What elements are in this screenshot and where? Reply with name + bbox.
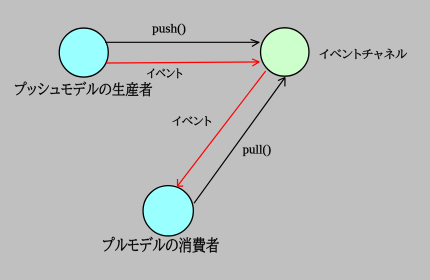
text label-event1: イベント xyxy=(147,68,182,78)
svg-text:pull(): pull() xyxy=(243,143,272,157)
node: pull-model consumer circle xyxy=(143,186,193,236)
wire: event red diagonal arrow shaft xyxy=(178,71,266,186)
arrowhead: pull() black xyxy=(278,78,285,87)
wire: pull() arrow shaft xyxy=(194,78,285,204)
arrowhead: push() black xyxy=(251,39,259,46)
text label-producer: プッシュモデルの生産者 xyxy=(15,82,152,97)
wire: push() arrow shaft xyxy=(105,41,260,43)
arrowhead: event red horizontal xyxy=(252,59,259,66)
node: push-model producer circle xyxy=(59,28,108,77)
arrowhead: event red diagonal xyxy=(178,179,184,186)
wire: event red horizontal arrow shaft xyxy=(106,62,259,63)
text label-channel: イベントチャネル xyxy=(320,49,407,59)
node: event channel circle xyxy=(261,28,309,76)
svg-text:push(): push() xyxy=(152,21,186,35)
text label-event2: イベント xyxy=(172,116,211,126)
text label-consumer: プルモデルの消費者 xyxy=(103,237,219,253)
